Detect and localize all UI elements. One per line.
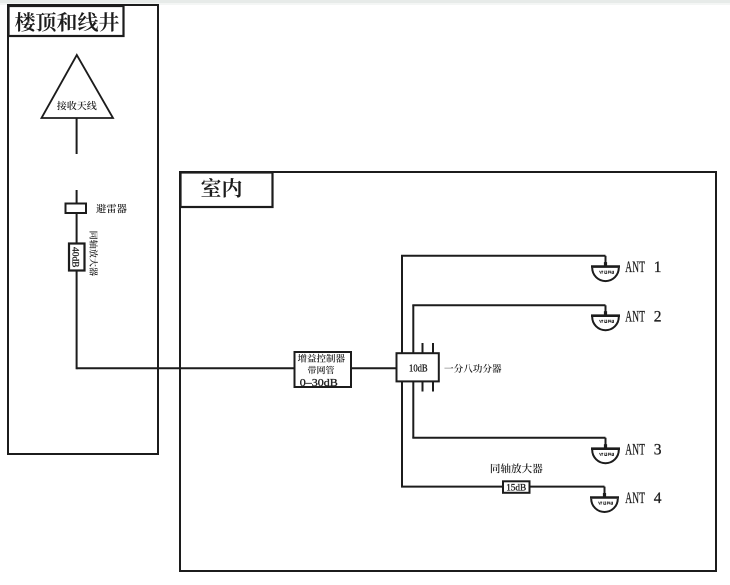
svg-text:40dB: 40dB — [70, 247, 80, 268]
svg-text:ANT: ANT — [625, 490, 645, 507]
svg-text:ANT: ANT — [625, 259, 645, 276]
svg-text:ANT: ANT — [625, 441, 645, 458]
svg-text:15dB: 15dB — [506, 483, 526, 494]
svg-text:4: 4 — [654, 490, 662, 507]
svg-text:0–30dB: 0–30dB — [300, 378, 338, 389]
svg-text:10dB: 10dB — [409, 364, 428, 375]
svg-text:ANT: ANT — [625, 308, 645, 325]
svg-text:1: 1 — [654, 259, 662, 276]
svg-text:2: 2 — [654, 308, 662, 325]
svg-text:3: 3 — [654, 441, 662, 458]
